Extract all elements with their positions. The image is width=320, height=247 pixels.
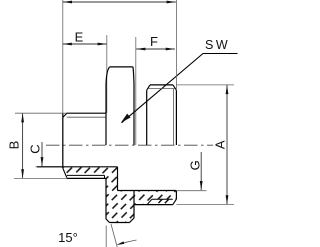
male thread runout slant: [147, 199, 152, 204]
B top arrowhead: [21, 113, 24, 122]
svg-text:15°: 15°: [58, 230, 78, 245]
svg-text:B: B: [7, 141, 22, 150]
F dimension line: [136, 48, 175, 50]
socket top mouth chamfer: [63, 113, 67, 117]
hex right face line: [133, 84, 135, 145]
section thread root line left: [67, 174, 105, 176]
male end face bottom: [175, 191, 177, 200]
svg-text:C: C: [27, 144, 42, 153]
male end chamfer edge vertical (thin): [173, 89, 175, 145]
male thread root line top (thin): [148, 88, 175, 90]
15 degree slant line: [111, 224, 117, 247]
svg-text:F: F: [150, 34, 158, 49]
hex left face line: [105, 84, 107, 145]
svg-text:G: G: [187, 160, 202, 170]
male thread start chamfer: [147, 85, 150, 90]
SW leader arrowhead: [121, 114, 131, 123]
section bore line left: [37, 166, 118, 168]
G extension line: [176, 190, 206, 192]
SW leader line: [122, 54, 238, 123]
section mouth bevel left: [63, 168, 67, 177]
hex top left chamfer arc: [106, 67, 110, 84]
socket outer line bottom: [67, 177, 106, 179]
hatch section left band and hex web: [63, 167, 134, 223]
overall dim left arrowhead: [63, 1, 72, 4]
male end chamfer top: [173, 85, 176, 90]
G dimension line: [200, 152, 202, 190]
centerline: [46, 144, 213, 146]
male end face line: [175, 0, 177, 145]
hatch section right male band: [134, 191, 176, 205]
overall dim right arrowhead: [167, 1, 176, 4]
internal bore step: [117, 167, 119, 191]
section thread end left: [104, 175, 106, 178]
socket outer line top: [67, 112, 106, 114]
15 degree arc arrowhead: [117, 241, 125, 245]
B top extension line: [15, 112, 67, 114]
E dimension line: [63, 43, 107, 45]
A top arrowhead: [226, 85, 229, 94]
15 degree vertical reference line: [105, 226, 107, 247]
socket thread root line top (thin): [67, 116, 106, 118]
overall length dimension line: [63, 1, 176, 3]
hex left face section edge: [105, 178, 107, 219]
hex bottom edge: [110, 222, 130, 224]
hex bottom left bevel: [106, 219, 110, 223]
hex top right chamfer arc: [133, 67, 134, 84]
stray hatch dash 2 in thread zone: [165, 200, 169, 204]
A bottom arrowhead: [226, 195, 229, 204]
svg-text:A: A: [213, 140, 228, 149]
male crest/outer line bottom: [134, 204, 173, 206]
A dimension line: [226, 85, 228, 204]
F left arrowhead: [136, 48, 145, 51]
G arrowhead: [200, 181, 203, 190]
svg-text:E: E: [75, 30, 84, 45]
A top extension line: [176, 84, 234, 86]
E left arrowhead: [63, 43, 72, 46]
section bore line right: [118, 190, 177, 192]
B bottom extension line: [14, 177, 67, 179]
male thread root line bottom: [152, 198, 173, 200]
F left extension line: [135, 37, 137, 145]
male end chamfer bottom: [173, 199, 177, 204]
C dimension line: [41, 142, 43, 166]
left face line (also extension for overall and E dims): [62, 0, 64, 168]
male thread start vertical: [146, 90, 148, 145]
15 degree arc: [118, 240, 136, 245]
C bottom arrowhead: [41, 157, 44, 166]
B bottom arrowhead: [21, 169, 24, 178]
stray hatch dash 1 in thread zone: [159, 199, 163, 203]
C bottom extension line (bore line extended): [36, 166, 63, 168]
E right arrowhead: [98, 43, 107, 46]
F right arrowhead: [166, 48, 175, 51]
B dimension line: [22, 113, 24, 178]
hex bottom right bevel: [130, 218, 135, 223]
E right extension line: [106, 35, 108, 113]
svg-text:SW: SW: [205, 38, 230, 52]
hex top flat: [110, 66, 133, 68]
hex right face section edge: [133, 191, 135, 219]
male outer line top: [150, 84, 173, 86]
A bottom extension line: [176, 203, 234, 205]
